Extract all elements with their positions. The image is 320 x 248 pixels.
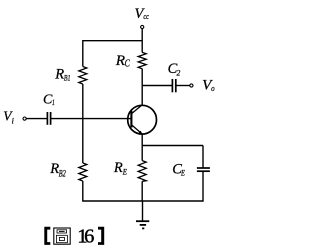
wire left branch top [82,40,84,67]
resistor RC [138,52,146,68]
wire top rail [83,40,142,42]
transistor Q1 [128,105,157,134]
Vi terminal [23,117,26,120]
wire collector branch to C2 [142,85,172,87]
wire base junction to RB2 [82,118,84,163]
Vcc terminal [141,25,144,28]
wire bottom rail [83,200,203,202]
wire Vi to C1 [26,118,47,120]
wire RB1 to base junction [82,84,84,119]
wire RC to collector node [141,69,143,106]
capacitor C1 [47,112,50,125]
ground [136,221,149,228]
resistor RB2 [79,163,87,181]
svg-text:6: 6 [84,225,94,247]
capacitor C2 [172,79,175,92]
wire CE to bottom rail [202,171,204,201]
wire RE to bottom rail [141,181,143,201]
wire RB2 to bottom rail [82,181,84,202]
caption bracket left [44,227,50,245]
wire emitter branch to CE [142,145,203,147]
wire emitter down [141,134,143,160]
Vo terminal [190,84,193,87]
resistor RB1 [79,67,87,85]
resistor RE [138,161,146,182]
wire C1 to base [51,118,132,120]
wire to ground [142,201,144,221]
wire C2 to Vo terminal [176,85,190,87]
caption bracket right [98,227,104,245]
capacitor CE [197,168,210,171]
caption character tu (figure) [54,228,70,244]
wire Vcc down to RC [141,29,143,53]
wire CE branch top [202,146,204,169]
